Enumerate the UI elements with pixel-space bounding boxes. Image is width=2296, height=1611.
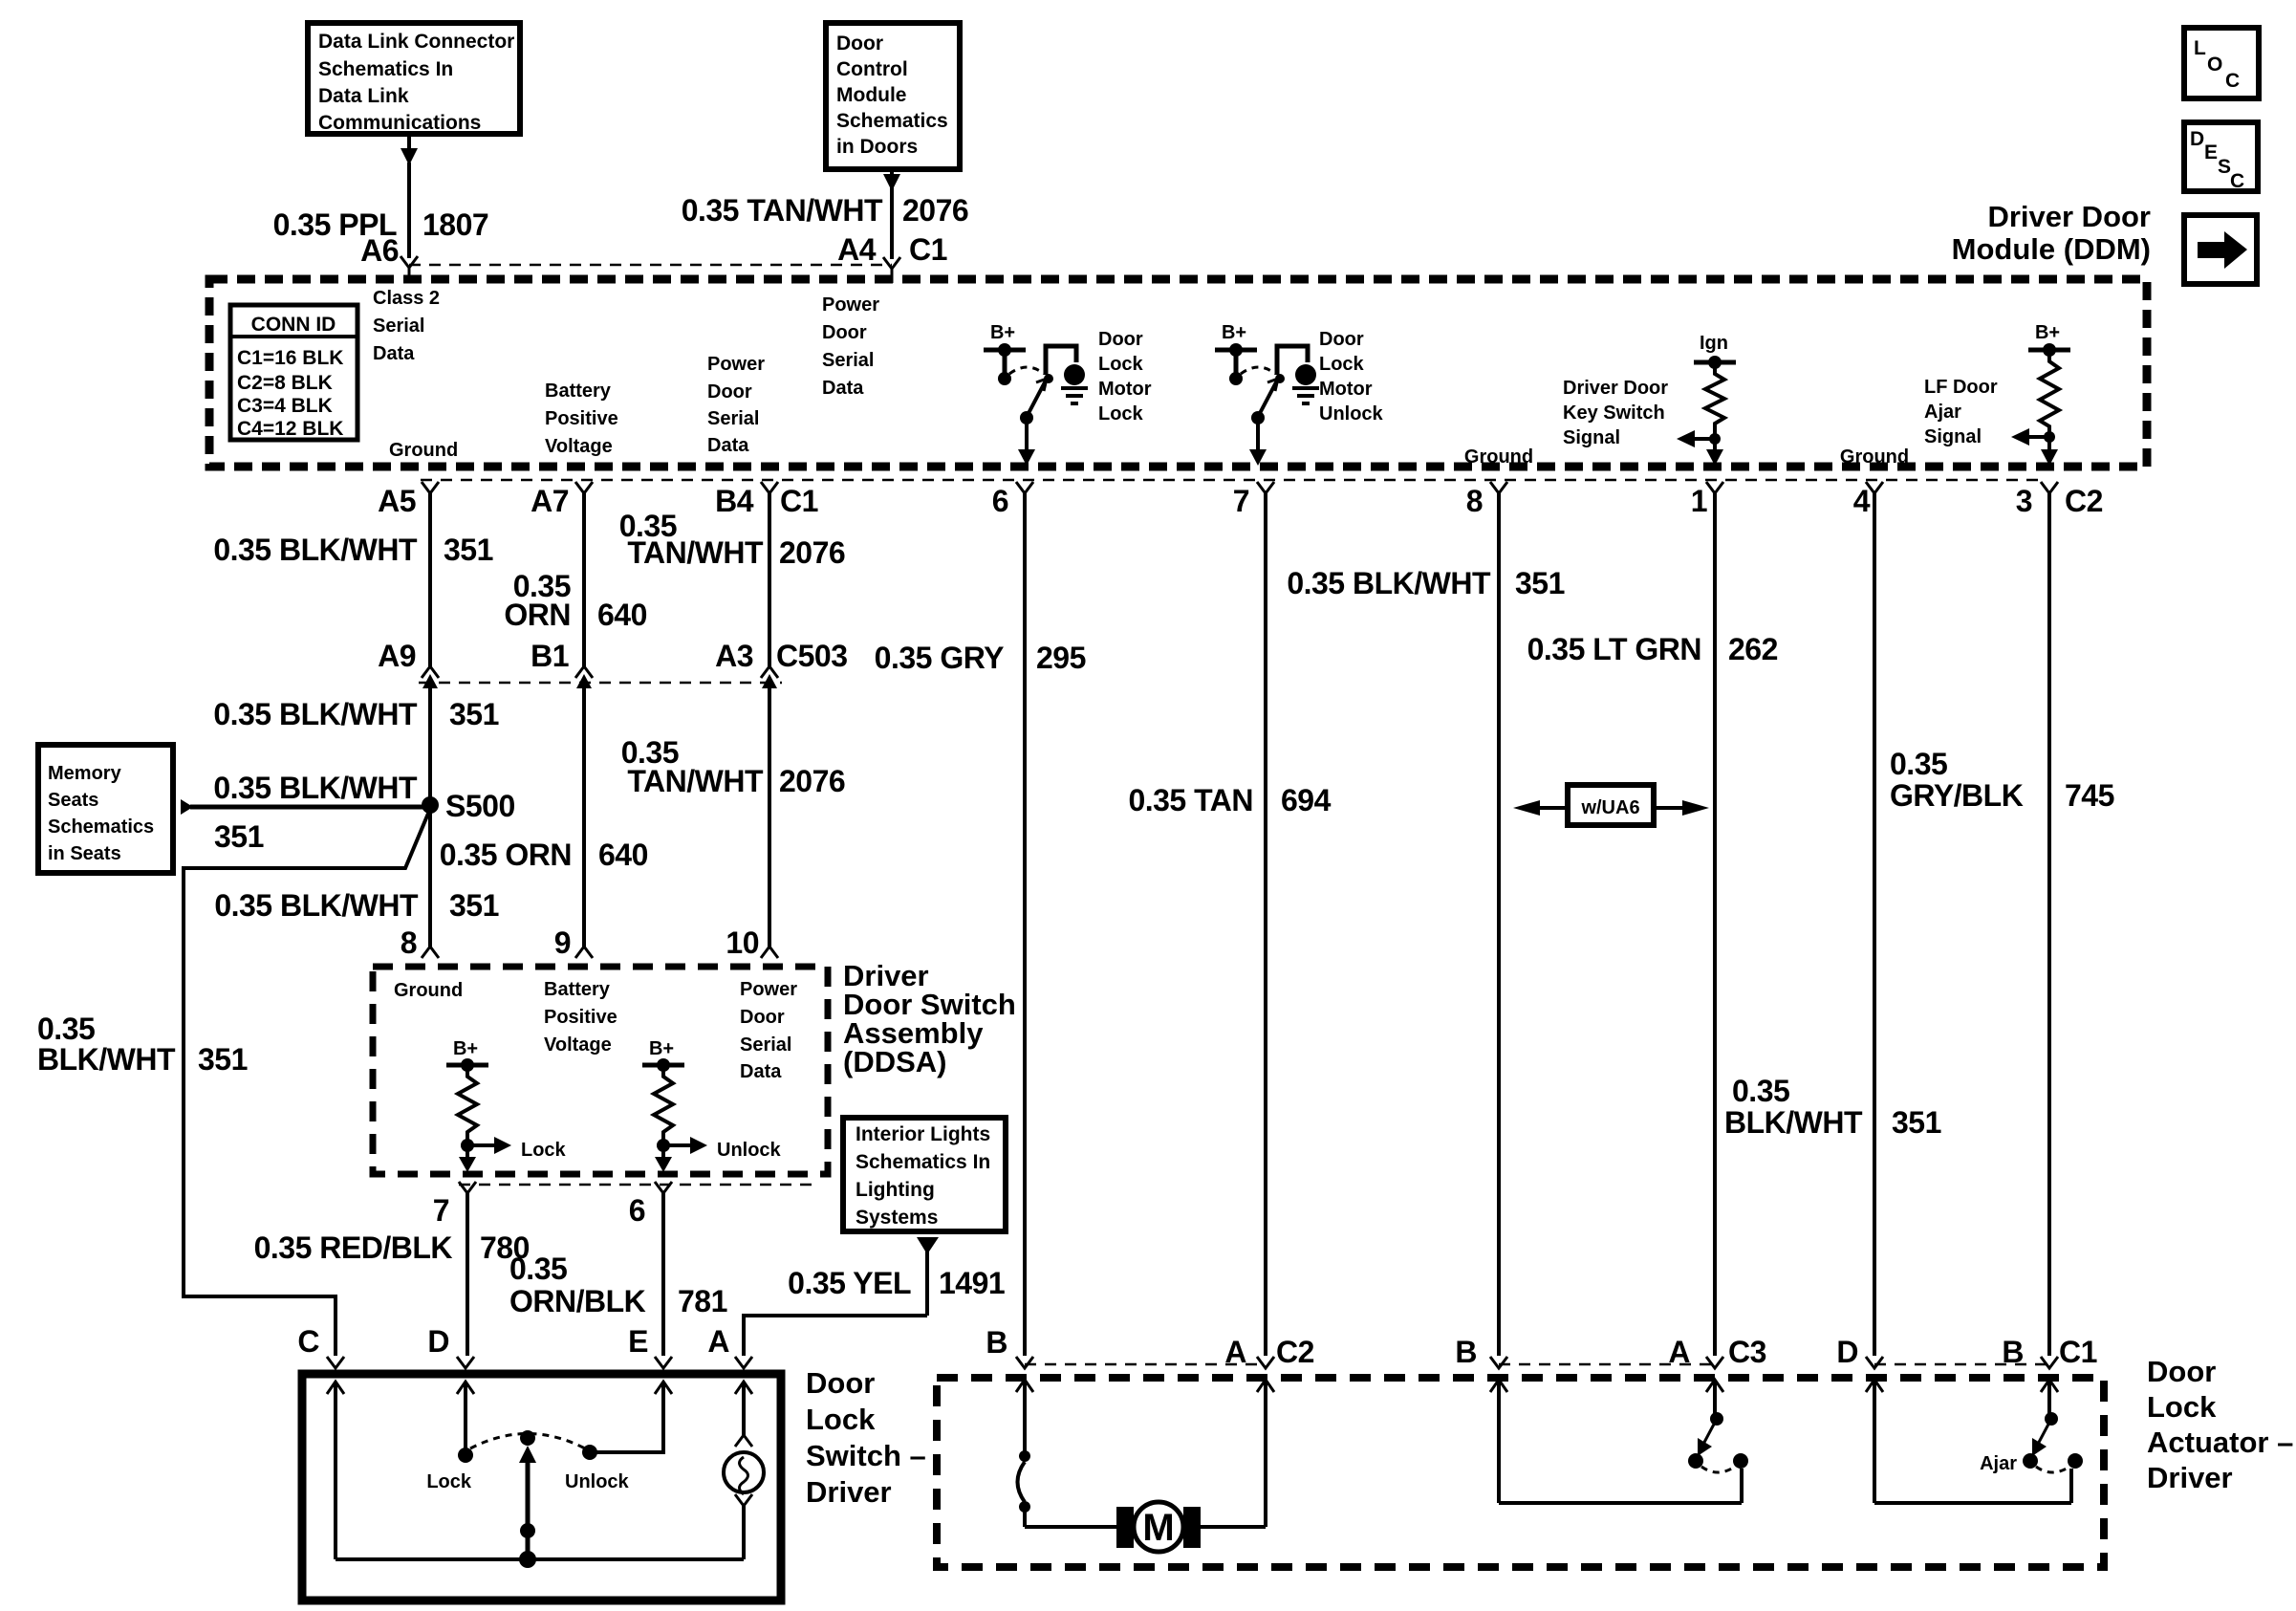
wire from lock switch to pin 6 <box>1018 418 1035 466</box>
svg-text:351: 351 <box>1515 566 1565 600</box>
svg-text:Data: Data <box>707 435 749 456</box>
svg-text:0.35 BLK/WHT: 0.35 BLK/WHT <box>1287 566 1491 600</box>
DDSA pin 6 connector <box>629 1182 672 1228</box>
door lock motor lock: motor terminal and ground <box>1061 364 1088 403</box>
svg-text:Lock: Lock <box>1098 403 1144 425</box>
svg-text:Motor: Motor <box>1319 379 1373 400</box>
wire: pin 4 to actuator pin D (0.35 BLK/WHT 351) <box>1873 493 1876 1356</box>
label 0.35 BLK/WHT 351 (A5-A9) <box>213 533 493 567</box>
actuator lock position switch blade <box>1688 1380 1748 1472</box>
svg-text:Door: Door <box>707 381 752 403</box>
w/UA6 option tag <box>1513 785 1709 825</box>
svg-text:(DDSA): (DDSA) <box>843 1045 947 1078</box>
pin 3/C2 connector <box>2016 482 2103 518</box>
svg-text:ORN: ORN <box>504 598 571 632</box>
actuator ajar switch blade <box>2023 1380 2083 1472</box>
svg-text:2076: 2076 <box>779 535 845 570</box>
svg-text:S500: S500 <box>445 789 515 823</box>
wire: DDSA 6 to switch pin E (0.35 ORN/BLK 781) <box>661 1193 665 1356</box>
label 0.35 BLK/WHT 351 (left branch) <box>37 1012 248 1077</box>
svg-text:Driver Door: Driver Door <box>1987 200 2151 233</box>
svg-text:Serial: Serial <box>740 1034 791 1056</box>
svg-text:Battery: Battery <box>544 979 611 1000</box>
svg-text:0.35 BLK/WHT: 0.35 BLK/WHT <box>213 771 418 805</box>
svg-text:Lock: Lock <box>426 1471 472 1492</box>
label 0.35 ORN 640 (B1-9) <box>440 838 648 872</box>
svg-text:B: B <box>986 1325 1007 1360</box>
module title: Door Lock Actuator - Driver <box>2147 1355 2293 1494</box>
svg-text:Unlock: Unlock <box>565 1471 630 1492</box>
svg-text:0.35 TAN: 0.35 TAN <box>1128 783 1253 817</box>
label 0.35 GRY/BLK 745 <box>1890 747 2114 813</box>
svg-text:A9: A9 <box>378 639 416 673</box>
label 0.35 ORN 640 (A7-B1) <box>504 569 647 632</box>
switch pin C connector <box>297 1324 344 1368</box>
svg-text:Data Link: Data Link <box>318 85 409 107</box>
net label: Class 2 Serial Data <box>373 288 440 364</box>
svg-text:0.35 LT GRN: 0.35 LT GRN <box>1527 632 1701 666</box>
svg-text:0.35 BLK/WHT: 0.35 BLK/WHT <box>214 888 419 923</box>
svg-text:351: 351 <box>214 819 264 854</box>
svg-text:Ground: Ground <box>389 440 458 461</box>
svg-text:Data: Data <box>373 343 415 364</box>
switch pin D connector <box>427 1324 474 1368</box>
net label: Power Door Serial Data (pin B4) <box>707 354 765 456</box>
svg-text:B+: B+ <box>649 1038 674 1059</box>
svg-text:0.35 ORN: 0.35 ORN <box>440 838 572 872</box>
door lock motor unlock: switch <box>1241 346 1308 425</box>
wire: ground A9 to S500 <box>428 683 432 805</box>
wire: battery positive A7 to B1 <box>582 493 586 668</box>
svg-text:Schematics: Schematics <box>836 110 948 132</box>
svg-text:Ajar: Ajar <box>1924 402 1961 423</box>
svg-text:Interior Lights: Interior Lights <box>856 1123 990 1145</box>
label 0.35 BLK/WHT 351 (S500-8) <box>214 888 499 923</box>
svg-text:C2: C2 <box>1276 1335 1314 1369</box>
svg-text:Schematics: Schematics <box>48 816 154 838</box>
svg-text:B4: B4 <box>715 484 754 518</box>
label 0.35 TAN/WHT 2076 (C503-10) <box>621 735 845 798</box>
switch pin E connector <box>628 1324 672 1368</box>
svg-text:Module: Module <box>836 84 907 106</box>
svg-text:C503: C503 <box>776 639 848 673</box>
door lock motor unlock: B+ terminal <box>1215 322 1257 385</box>
svg-text:6: 6 <box>992 484 1008 518</box>
actuator pin B/C1 connector <box>2002 1335 2097 1369</box>
svg-text:M: M <box>1142 1507 1174 1549</box>
label 0.35 RED/BLK 780 <box>254 1230 530 1265</box>
DDSA pin 7 connector <box>433 1182 476 1228</box>
svg-text:D: D <box>1836 1335 1858 1369</box>
label 0.35 BLK/WHT 351 (A9-S500) <box>213 697 499 731</box>
svg-text:in Doors: in Doors <box>836 136 918 158</box>
svg-text:C: C <box>297 1324 319 1359</box>
svg-text:C1=16 BLK: C1=16 BLK <box>237 347 343 369</box>
svg-text:0.35: 0.35 <box>509 1252 567 1286</box>
pin 6 connector <box>992 482 1033 518</box>
DDSA net label: Battery Positive Voltage <box>544 979 617 1056</box>
svg-text:Module (DDM): Module (DDM) <box>1952 232 2151 266</box>
door lock switch box <box>302 1374 781 1600</box>
wire: pin 6 to actuator pin B (0.35 GRY 295) <box>1023 493 1027 1356</box>
svg-text:0.35 TAN/WHT: 0.35 TAN/WHT <box>682 193 883 228</box>
actuator pin A/C3 connector <box>1668 1335 1766 1369</box>
in-line connector pin A3/C503 <box>715 639 847 688</box>
svg-text:Lock: Lock <box>1098 354 1144 375</box>
reference box: Door Control Module Schematics in Doors <box>826 23 960 169</box>
wire: 0.35 YEL 1491 from switch pin A to interior lights <box>744 1237 939 1356</box>
svg-text:Lock: Lock <box>2147 1390 2217 1424</box>
svg-text:w/UA6: w/UA6 <box>1580 797 1639 818</box>
wire: pin 1 to actuator pin A (0.35 LT GRN 262) <box>1713 493 1717 1356</box>
svg-text:0.35 RED/BLK: 0.35 RED/BLK <box>254 1230 453 1265</box>
svg-text:Unlock: Unlock <box>717 1140 782 1161</box>
svg-text:Door: Door <box>806 1366 875 1400</box>
LOC box <box>2184 28 2259 98</box>
svg-text:B: B <box>1455 1335 1477 1369</box>
splice S500 <box>422 789 515 823</box>
wire: memory seats to S500 <box>181 799 430 815</box>
wire from unlock switch to pin 7 <box>1249 418 1267 466</box>
wire: ground A5 to A9 <box>428 493 432 668</box>
svg-text:2076: 2076 <box>902 193 968 228</box>
svg-text:C2=8 BLK: C2=8 BLK <box>237 372 333 394</box>
svg-text:TAN/WHT: TAN/WHT <box>627 764 764 798</box>
net label: Battery Positive Voltage (pin A7) <box>545 381 618 457</box>
pin A5 connector <box>378 482 439 518</box>
svg-text:4: 4 <box>1853 484 1871 518</box>
pin 4 connector <box>1853 482 1883 518</box>
svg-text:1491: 1491 <box>939 1266 1005 1300</box>
svg-text:A: A <box>707 1324 729 1359</box>
svg-text:D: D <box>427 1324 449 1359</box>
svg-text:C2: C2 <box>2065 484 2103 518</box>
CONN ID table <box>230 305 357 440</box>
svg-text:10: 10 <box>726 925 759 960</box>
wire: pin 7 to actuator pin A (0.35 TAN 694) <box>1264 493 1267 1356</box>
wire: serial data C1 to A3 <box>768 493 771 668</box>
DDSA output connector dashed line <box>459 1184 812 1186</box>
svg-text:Serial: Serial <box>707 408 759 429</box>
svg-text:Serial: Serial <box>373 316 424 337</box>
svg-text:C1: C1 <box>2059 1335 2097 1369</box>
svg-text:Data Link Connector: Data Link Connector <box>318 31 514 53</box>
svg-text:in Seats: in Seats <box>48 843 121 864</box>
svg-text:Communications: Communications <box>318 112 481 134</box>
svg-text:Ground: Ground <box>394 980 463 1001</box>
svg-text:Schematics In: Schematics In <box>318 58 453 80</box>
svg-text:Switch –: Switch – <box>806 1439 926 1472</box>
wire: DDSA 7 to switch pin D (0.35 RED/BLK 780) <box>466 1193 469 1356</box>
svg-text:B+: B+ <box>453 1038 478 1059</box>
svg-text:Signal: Signal <box>1563 427 1620 448</box>
pin 7 connector <box>1233 482 1274 518</box>
in-line connector C503: dashed line <box>419 682 782 685</box>
svg-text:A6: A6 <box>360 233 399 268</box>
net label: LF Door Ajar Signal <box>1924 377 1998 447</box>
svg-text:8: 8 <box>1466 484 1483 518</box>
svg-text:694: 694 <box>1281 783 1332 817</box>
actuator motor circuit: pin B side with lock position contact <box>1016 1380 1116 1527</box>
svg-text:Lighting: Lighting <box>856 1179 935 1201</box>
svg-text:745: 745 <box>2065 778 2114 813</box>
svg-text:Voltage: Voltage <box>545 436 613 457</box>
svg-text:S: S <box>2218 156 2231 178</box>
svg-text:351: 351 <box>449 888 499 923</box>
DDSA net label: Power Door Serial Data <box>740 979 797 1082</box>
svg-text:781: 781 <box>678 1284 727 1318</box>
in-line connector pin A9 <box>378 639 439 688</box>
switch internal bottom rail <box>336 1557 744 1561</box>
svg-text:Memory: Memory <box>48 763 122 784</box>
svg-text:Ign: Ign <box>1700 333 1728 354</box>
svg-text:Door: Door <box>1098 329 1143 350</box>
pin A7 connector <box>531 482 593 518</box>
svg-text:Battery: Battery <box>545 381 612 402</box>
svg-text:Lock: Lock <box>806 1403 876 1436</box>
svg-text:Power: Power <box>707 354 765 375</box>
actuator pin B connector (lock sw) <box>1455 1335 1507 1369</box>
svg-text:295: 295 <box>1036 641 1086 675</box>
svg-text:7: 7 <box>433 1193 449 1228</box>
svg-text:BLK/WHT: BLK/WHT <box>1724 1105 1863 1140</box>
wire: S500 branch to door lock switch pin C <box>184 809 430 1356</box>
svg-text:Key Switch: Key Switch <box>1563 403 1665 424</box>
reference box: Memory Seats Schematics in Seats <box>38 745 173 873</box>
svg-text:Schematics In: Schematics In <box>856 1151 990 1173</box>
label: Door Lock Motor Lock <box>1098 329 1152 425</box>
svg-text:Actuator –: Actuator – <box>2147 1426 2293 1459</box>
svg-text:0.35: 0.35 <box>37 1012 95 1046</box>
svg-text:1807: 1807 <box>422 207 488 242</box>
svg-text:9: 9 <box>554 925 571 960</box>
svg-text:O: O <box>2207 54 2222 76</box>
svg-text:7: 7 <box>1233 484 1249 518</box>
svg-text:6: 6 <box>629 1193 645 1228</box>
arrow box <box>2184 215 2257 284</box>
svg-text:0.35: 0.35 <box>1890 747 1947 781</box>
svg-text:Door: Door <box>740 1007 785 1028</box>
actuator pin B connector (motor) <box>986 1325 1033 1368</box>
svg-text:351: 351 <box>444 533 493 567</box>
svg-text:Driver: Driver <box>2147 1461 2233 1494</box>
svg-text:Ajar: Ajar <box>1980 1453 2017 1474</box>
svg-text:E: E <box>628 1324 648 1359</box>
svg-text:Positive: Positive <box>545 408 618 429</box>
svg-text:LF Door: LF Door <box>1924 377 1998 398</box>
svg-text:D: D <box>2190 128 2204 150</box>
wire A6: 0.35 PPL 1807 from Data Link box to DDM <box>401 135 418 283</box>
DDM module dashed box <box>209 279 2147 467</box>
svg-text:Serial: Serial <box>822 350 874 371</box>
switch internal wire D to Lock contact <box>457 1382 474 1463</box>
svg-text:Signal: Signal <box>1924 426 1982 447</box>
svg-text:A7: A7 <box>531 484 569 518</box>
pin 8 connector <box>1466 482 1507 518</box>
svg-text:2076: 2076 <box>779 764 845 798</box>
svg-text:B+: B+ <box>2035 322 2060 343</box>
svg-text:Data: Data <box>822 378 864 399</box>
svg-text:A: A <box>1668 1335 1690 1369</box>
svg-text:0.35 BLK/WHT: 0.35 BLK/WHT <box>213 697 418 731</box>
svg-text:0.35 GRY: 0.35 GRY <box>875 641 1004 675</box>
wire: serial data C503 to DDSA 10 <box>768 683 771 947</box>
wire A4/C1: 0.35 TAN/WHT 2076 from Door Control box to DDM <box>883 170 900 283</box>
svg-text:Class 2: Class 2 <box>373 288 440 309</box>
svg-text:E: E <box>2204 142 2218 163</box>
svg-text:A5: A5 <box>378 484 416 518</box>
Ign pull-up resistor (pin 1) <box>1677 333 1736 466</box>
svg-text:Ground: Ground <box>1464 446 1533 468</box>
label 0.35 BLK/WHT 351 (pin 8) <box>1287 566 1565 600</box>
svg-text:351: 351 <box>449 697 499 731</box>
svg-text:Power: Power <box>822 294 879 316</box>
svg-text:Door: Door <box>836 33 883 54</box>
wire: pin 8 to actuator pin B (0.35 BLK/WHT 351) <box>1497 493 1501 1356</box>
net label: Power Door Serial Data (pin A4) <box>822 294 879 399</box>
door lock actuator dashed box <box>937 1378 2104 1567</box>
actuator motor wire to pin A <box>1201 1380 1274 1527</box>
actuator motor M <box>1116 1502 1201 1552</box>
svg-text:0.35 YEL: 0.35 YEL <box>788 1266 911 1300</box>
svg-text:Control: Control <box>836 58 908 80</box>
svg-text:Driver Door: Driver Door <box>1563 378 1668 399</box>
svg-text:Door: Door <box>1319 329 1364 350</box>
svg-text:BLK/WHT: BLK/WHT <box>37 1042 176 1077</box>
svg-text:0.35 BLK/WHT: 0.35 BLK/WHT <box>213 533 418 567</box>
label 0.35 TAN/WHT 2076 (C1-A3) <box>619 509 845 570</box>
reference box: Interior Lights Schematics In Lighting Systems <box>843 1118 1006 1231</box>
actuator ajar switch: pin D rail <box>1866 1380 2071 1503</box>
svg-text:Ground: Ground <box>1840 446 1909 468</box>
door lock motor lock: switch <box>1009 346 1076 425</box>
actuator pin D connector <box>1836 1335 1883 1369</box>
svg-text:262: 262 <box>1728 632 1778 666</box>
svg-text:Lock: Lock <box>1319 354 1365 375</box>
module title: Driver Door Module (DDM) <box>1952 200 2151 266</box>
label: Door Lock Motor Unlock <box>1319 329 1384 425</box>
label 0.35 GRY 295 <box>875 641 1086 675</box>
in-line connector pin B1 <box>531 639 593 688</box>
svg-text:GRY/BLK: GRY/BLK <box>1890 778 2024 813</box>
pin 1 connector <box>1691 482 1723 518</box>
svg-text:B1: B1 <box>531 639 569 673</box>
svg-text:C1: C1 <box>909 232 947 267</box>
label 0.35 BLK/WHT 351 (pin 4) <box>1724 1074 1941 1140</box>
switch internal wire E to Unlock contact <box>582 1382 672 1460</box>
net label: Driver Door Key Switch Signal <box>1563 378 1668 448</box>
DDSA module dashed box <box>373 967 828 1174</box>
reference box: Data Link Connector Schematics <box>308 23 520 134</box>
svg-text:Motor: Motor <box>1098 379 1152 400</box>
svg-text:351: 351 <box>1892 1105 1941 1140</box>
svg-text:C3: C3 <box>1728 1335 1766 1369</box>
wire: battery positive B1 to DDSA 9 <box>582 683 586 947</box>
svg-text:640: 640 <box>598 838 648 872</box>
svg-text:351: 351 <box>198 1042 248 1077</box>
svg-text:1: 1 <box>1691 484 1707 518</box>
svg-text:B+: B+ <box>1222 322 1246 343</box>
wire: pin 3 to actuator pin B (0.35 GRY/BLK 745) <box>2047 493 2051 1356</box>
svg-text:Unlock: Unlock <box>1319 403 1384 425</box>
svg-text:Door: Door <box>822 322 867 343</box>
svg-text:C: C <box>2230 170 2244 192</box>
svg-text:Door: Door <box>2147 1355 2216 1388</box>
svg-text:B: B <box>2002 1335 2024 1369</box>
svg-text:Data: Data <box>740 1061 782 1082</box>
switch internal wire C <box>327 1382 344 1559</box>
pin B4/C1 connector <box>715 482 818 518</box>
svg-text:A: A <box>1224 1335 1246 1369</box>
svg-text:A4: A4 <box>837 232 877 267</box>
wire: ground S500 to DDSA 8 <box>428 805 432 947</box>
svg-text:Seats: Seats <box>48 790 98 811</box>
door lock motor unlock: motor terminal and ground <box>1292 364 1319 403</box>
module title: Door Lock Switch - Driver <box>806 1366 926 1509</box>
switch blade: dashed arc and pivot <box>470 1430 585 1568</box>
B+ pull-up resistor (pin 3) <box>2011 322 2070 466</box>
svg-text:CONN ID: CONN ID <box>251 314 336 336</box>
svg-text:L: L <box>2194 37 2206 59</box>
actuator connector dashed lines <box>1025 1363 1266 1366</box>
svg-text:3: 3 <box>2016 484 2032 518</box>
module title: Driver Door Switch Assembly (DDSA) <box>843 959 1016 1078</box>
connector dashed line (DDM bottom) <box>421 479 2041 482</box>
DDSA unlock switch: B+ and resistor <box>642 1038 782 1172</box>
label 0.35 LT GRN 262 <box>1527 632 1778 666</box>
label 0.35 TAN 694 <box>1128 783 1331 817</box>
actuator lock position switch: pin B rail <box>1490 1380 1742 1503</box>
svg-text:Power: Power <box>740 979 797 1000</box>
svg-text:8: 8 <box>401 925 417 960</box>
svg-text:A3: A3 <box>715 639 753 673</box>
connector dashed line (DDM top, C1) <box>409 264 892 267</box>
svg-text:C3=4 BLK: C3=4 BLK <box>237 395 333 417</box>
DDSA lock switch: B+ and resistor <box>446 1038 567 1172</box>
svg-text:Positive: Positive <box>544 1007 617 1028</box>
DESC box <box>2184 122 2258 192</box>
svg-text:Lock: Lock <box>521 1140 567 1161</box>
switch internal wire A with illumination lamp <box>724 1382 764 1559</box>
svg-text:Systems: Systems <box>856 1207 938 1229</box>
svg-text:Voltage: Voltage <box>544 1034 612 1056</box>
door lock motor lock: B+ terminal <box>984 322 1026 385</box>
svg-text:0.35: 0.35 <box>1732 1074 1789 1108</box>
svg-text:TAN/WHT: TAN/WHT <box>627 535 764 570</box>
switch pin A connector <box>707 1324 752 1368</box>
svg-text:ORN/BLK: ORN/BLK <box>509 1284 646 1318</box>
svg-text:C4=12 BLK: C4=12 BLK <box>237 418 343 440</box>
svg-text:C1: C1 <box>780 484 818 518</box>
svg-text:B+: B+ <box>990 322 1015 343</box>
svg-text:C: C <box>2225 70 2240 92</box>
actuator pin A/C2 connector <box>1224 1335 1314 1369</box>
svg-text:640: 640 <box>597 598 647 632</box>
label 0.35 YEL 1491 <box>788 1266 1005 1300</box>
svg-text:Driver: Driver <box>806 1475 892 1509</box>
label 0.35 ORN/BLK 781 <box>509 1252 727 1318</box>
